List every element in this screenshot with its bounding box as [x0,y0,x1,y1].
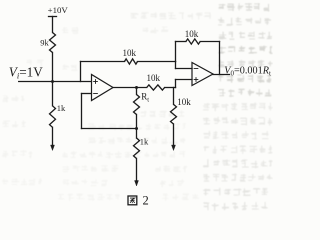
wire Vi node up-branch [80,62,82,82]
ground arrow (right) [172,145,176,151]
node Rt top junction [135,86,138,89]
wire U1 minus input [82,94,92,129]
caption: figure label (tu) 2 [128,194,149,208]
label 10k (top left) [122,48,136,58]
node Vi input label [9,65,43,81]
svg-text:10k: 10k [185,29,199,39]
wire 10k to plus jog [165,87,176,89]
label 10k (middle) [146,73,160,83]
node Vi junction dot [51,80,54,83]
svg-text:10k: 10k [146,73,160,83]
svg-text:Vi=1V: Vi=1V [9,65,43,81]
svg-text:10k: 10k [122,48,136,58]
svg-text:+10V: +10V [48,5,69,15]
wire 10k to jog [138,61,176,63]
power +10V label [48,5,69,15]
wire +10V to 9k [52,17,54,33]
wire U2 output [213,74,230,76]
wire jog up to U2 plus input [176,80,193,88]
wire 9k to Vi node [52,53,54,106]
wire U1 minus to Rt bottom node [82,128,137,130]
wire feedback riser [175,42,177,62]
op-amp U1 [92,75,114,101]
ground arrow (left) [51,145,55,151]
svg-text:9k: 9k [40,37,49,47]
wire U1 output [113,87,147,89]
resistor 9k [50,33,56,53]
wire feedback top right segment and drop [200,42,219,75]
label 1k (below Rt) [140,136,149,146]
svg-text:10k: 10k [177,97,191,107]
resistor 10k (U2 plus to ground) [171,88,177,146]
power +10V terminal tick [49,16,57,18]
wire 1k to ground [52,127,54,145]
resistor 10k (Vi to U2 inverting input) [125,59,138,64]
svg-text:2: 2 [143,194,149,208]
op-amp U2 [192,63,213,86]
ground arrow (middle) [135,181,139,187]
wire Vi input [19,81,92,83]
label 1k (left) [57,103,66,113]
node Rt bottom junction [135,127,138,130]
label Rt [141,91,149,103]
resistor Rt [134,88,140,129]
node Vo output label [224,65,271,77]
svg-text:1k: 1k [140,136,149,146]
svg-text:1k: 1k [57,103,66,113]
label 9k [40,37,49,47]
label 10k (feedback) [185,29,199,39]
wire jog down to U2 minus input [176,62,193,69]
wire top run to 10k [81,61,125,63]
resistor 10k (U1 output to U2 plus) [147,85,165,90]
resistor 1k (below Rt) [134,129,140,182]
wire feedback top left segment [176,41,186,43]
label 10k (right vertical) [177,97,191,107]
resistor 10k (U2 feedback) [186,39,200,44]
resistor 1k (left, to ground) [50,106,56,128]
